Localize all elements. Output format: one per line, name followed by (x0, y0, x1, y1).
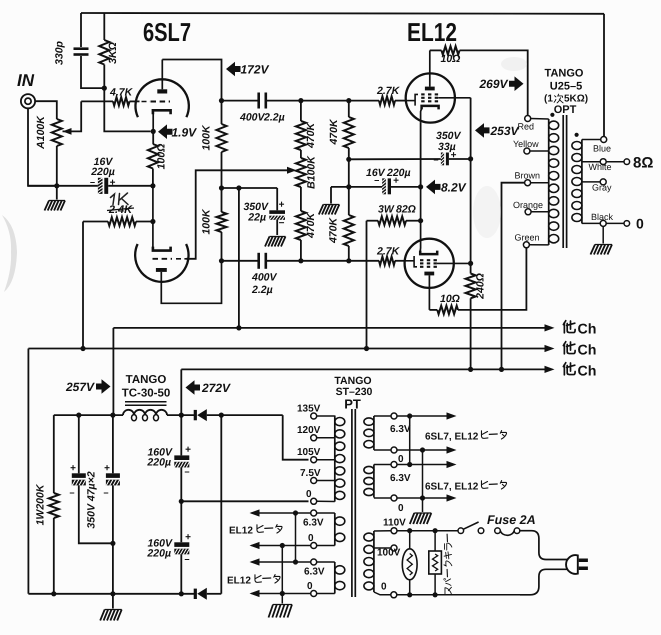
svg-text:TANGO: TANGO (545, 68, 584, 80)
svg-text:Ch: Ch (578, 322, 597, 338)
terminal 100V (374, 545, 397, 551)
wire common rail (28, 348, 545, 350)
label 8.2V (441, 181, 467, 195)
wire B+ riser to 257V rail (238, 188, 240, 328)
resistor 100K lower (217, 212, 227, 261)
label 257V (65, 380, 95, 394)
wire jack ground drop (28, 108, 57, 186)
svg-text:6.3V: 6.3V (390, 473, 411, 484)
junction screen bypass (468, 156, 473, 161)
junction 160V bottom (179, 591, 184, 596)
junction 47u join (110, 541, 115, 546)
ground heater left (269, 605, 293, 618)
junction plate node V1a (219, 98, 224, 103)
transformer OPT secondary dot (575, 133, 579, 137)
svg-text:3W: 3W (378, 204, 395, 216)
svg-text:253V: 253V (490, 124, 520, 138)
wire lower grid line (222, 260, 380, 262)
label White (589, 162, 612, 172)
wire jack to volume pot (35, 101, 57, 119)
label 47u a polarity (69, 463, 76, 498)
wire B+ rail (181, 368, 545, 370)
label 160V b polarity (184, 532, 191, 565)
fuse 2A (495, 528, 520, 535)
pentode V2 screen lead (438, 97, 470, 99)
wire upper grid line (301, 100, 379, 102)
terminal 6.3V R2 (374, 462, 448, 468)
svg-text:2.2µ: 2.2µ (263, 112, 285, 124)
arrow heater R2b (447, 494, 457, 501)
label IN (17, 71, 35, 90)
svg-text:Orange: Orange (513, 200, 543, 210)
switch power (458, 522, 484, 534)
label Black (591, 212, 614, 222)
wire V2 plate to 10 ohm (430, 49, 442, 51)
svg-text:8.2V: 8.2V (441, 181, 467, 195)
label Gray (592, 183, 612, 193)
arrow heater L2b (250, 590, 260, 597)
junction tie R2 end (420, 495, 425, 500)
junction cathode 1.9V node (151, 129, 156, 134)
svg-text:+: + (393, 176, 399, 187)
label 0 ohm tap (636, 216, 644, 232)
svg-text:Ch: Ch (578, 343, 597, 359)
svg-text:105V: 105V (297, 447, 321, 458)
resistor 10 ohm upper (442, 46, 460, 54)
capacitor 350V 47u a (72, 415, 113, 543)
choke TC-30-50 (123, 402, 167, 421)
capacitor 16V 220u input stage (98, 178, 108, 194)
wire heater L1b (252, 545, 311, 547)
svg-text:272V: 272V (201, 381, 231, 395)
capacitor 160V 220u b (174, 542, 189, 594)
svg-text:6SL7, EL12: 6SL7, EL12 (425, 432, 479, 443)
svg-text:33µ: 33µ (438, 141, 456, 153)
label 400V2.2u upper (239, 112, 285, 124)
wire D1 to 105V tap (283, 415, 309, 460)
pentode V2 cathode (421, 106, 439, 123)
wire PSU top mid (167, 414, 194, 416)
junction 100K midpoint (219, 185, 224, 190)
label 16V220u EL12 (366, 167, 411, 179)
label EL12 (407, 17, 457, 47)
label 0 R1 (398, 454, 404, 465)
svg-text:Yellow: Yellow (513, 139, 539, 149)
arrow 172V (226, 62, 241, 77)
junction V3 screen (468, 261, 473, 266)
label 470K divider top (305, 122, 317, 150)
junction tie R2 (420, 447, 425, 452)
svg-text:EL12: EL12 (229, 526, 253, 537)
label 470K divider bottom (305, 212, 317, 240)
terminal Red (525, 116, 549, 122)
pentode V3 plate (424, 272, 434, 310)
arrow B100K wiper (287, 167, 297, 174)
capacitor 350V 47u b (106, 415, 120, 594)
svg-text:100K: 100K (201, 124, 213, 151)
svg-text:240Ω: 240Ω (475, 273, 487, 300)
terminal White (582, 159, 624, 165)
arrow heater R2a (447, 461, 457, 468)
junction cathode 8.2V node (418, 184, 423, 189)
wire common riser (27, 349, 29, 594)
input jack (21, 94, 35, 108)
potentiometer B100K (296, 158, 306, 211)
svg-text:5KΩ): 5KΩ) (564, 94, 588, 105)
wire tie R 63 (409, 416, 411, 465)
label 6.3V R2 (390, 473, 411, 484)
label 22u (247, 212, 266, 224)
resistor 240 ohm screen feed (466, 274, 476, 370)
label PT (344, 397, 361, 412)
wire D1 D2 vertical (220, 415, 222, 594)
label Green (515, 233, 540, 243)
svg-text:A100K: A100K (35, 115, 47, 150)
capacitor 400V 2.2u lower (259, 253, 266, 269)
pentode V2 envelope (406, 73, 455, 122)
terminal 135V (311, 413, 335, 419)
capacitor 330p (74, 13, 105, 88)
pentode V2 grids (421, 94, 438, 101)
label 100 ohm (156, 144, 168, 170)
svg-text:0: 0 (398, 454, 404, 465)
triode V1b grid (153, 258, 187, 260)
wire heater tie 0 (280, 543, 285, 604)
terminal Black (582, 220, 624, 226)
label Blue (593, 144, 611, 154)
label other channel 3 (563, 363, 596, 380)
wire 110V line (397, 530, 458, 532)
svg-text:White: White (589, 162, 612, 172)
junction raw B+ (179, 413, 184, 418)
wire feedback to cathode (104, 88, 150, 131)
junction cap47a (76, 413, 81, 418)
svg-text:−: − (279, 218, 285, 229)
wire V1a plate to coupling node (162, 60, 221, 101)
svg-text:+: + (185, 532, 191, 543)
wire screen bypass cap (349, 158, 441, 160)
wire 10 ohm to Red (460, 50, 528, 115)
label 253V (490, 124, 520, 138)
svg-text:0: 0 (398, 503, 404, 514)
label 350V 22u polarity (279, 200, 285, 230)
terminal 7.5V (311, 478, 335, 484)
arrow 1.9V (158, 124, 173, 139)
terminal Green (523, 242, 548, 248)
triode V1a grid (142, 101, 171, 103)
svg-text:Fuse 2A: Fuse 2A (487, 513, 536, 527)
surge limiter (402, 531, 417, 595)
wire B+ feed to 100K mid (222, 187, 278, 189)
resistor 2.4K cathode V1b (83, 217, 153, 225)
terminal 0 L1 (311, 543, 335, 549)
label 240 ohm (475, 273, 487, 300)
svg-text:Red: Red (518, 122, 535, 132)
label 110V (383, 518, 406, 529)
capacitor 16V 220u EL12 (382, 178, 420, 194)
diode D2 (195, 588, 221, 600)
smudge left (2, 215, 17, 292)
svg-text:1.9V: 1.9V (172, 126, 198, 140)
svg-text:2.7K: 2.7K (376, 246, 401, 258)
svg-text:22µ: 22µ (247, 212, 266, 224)
label 8 ohm (633, 155, 653, 172)
label 135V (297, 404, 321, 415)
transformer PT 110V winding (364, 531, 374, 592)
triode V1a envelope (135, 79, 188, 117)
arrow 8.2V (426, 180, 441, 195)
wire 2.4K to common line (82, 222, 84, 349)
svg-text:6SL7, EL12: 6SL7, EL12 (425, 482, 479, 493)
junction D1 D2 join (219, 413, 224, 418)
label 6SL7 heater 1 (425, 431, 507, 443)
svg-text:400V: 400V (239, 112, 266, 124)
label other channel 2 (563, 342, 596, 359)
svg-text:6.3V: 6.3V (303, 518, 324, 529)
svg-text:+: + (70, 463, 76, 474)
label 33u polarity (433, 150, 456, 165)
label 6SL7 (143, 17, 191, 47)
label Red (518, 122, 535, 132)
wire heater L2a (252, 561, 311, 563)
svg-text:6.3V: 6.3V (304, 567, 325, 578)
terminal 8 ohm (624, 159, 630, 165)
svg-text:−: − (374, 176, 379, 186)
label 120V (297, 425, 321, 436)
label 1W200K (35, 483, 47, 525)
svg-text:3KΩ: 3KΩ (107, 42, 119, 64)
label 16V 220u polarity (90, 178, 116, 189)
triode V1a plate (157, 60, 167, 94)
arrow 272V (186, 380, 201, 395)
wire V3 plate 10 ohm (429, 309, 437, 311)
junction 82 ohm right (418, 218, 423, 223)
svg-text:+: + (104, 463, 110, 474)
label Yellow (513, 139, 539, 149)
wire 10 ohm to Green (458, 248, 526, 310)
svg-text:0: 0 (308, 533, 314, 544)
label 470K grid leak lower (328, 217, 340, 245)
wire 257V riser (112, 328, 114, 415)
wire heater L2b (252, 593, 311, 595)
svg-text:7.5V: 7.5V (300, 468, 321, 479)
smudge center (473, 186, 501, 238)
resistor 3K ohm (99, 13, 109, 88)
label 0 HV (306, 489, 312, 500)
wire PSU bottom rail (28, 593, 194, 595)
svg-text:120V: 120V (297, 425, 321, 436)
label TANGO choke (126, 374, 167, 386)
junction killer bottom (433, 592, 438, 597)
wire feedback rail from OPT Blue tap (81, 12, 604, 15)
svg-text:470K: 470K (305, 122, 317, 150)
label 470K grid leak upper (328, 118, 340, 146)
svg-text:−: − (184, 467, 189, 477)
terminal 6.3V L2 (311, 559, 335, 565)
label 10 ohm upper (441, 53, 461, 65)
svg-text:1W200K: 1W200K (35, 483, 47, 525)
arrow other channel 2 (545, 345, 555, 352)
label 0 L1 (308, 533, 314, 544)
wire tie R 0 (422, 450, 424, 512)
svg-text:220µ: 220µ (146, 548, 171, 560)
label spark killer (444, 534, 452, 594)
label 160V a polarity (184, 445, 191, 478)
wire 257V rail (113, 327, 545, 329)
wire B+ riser (180, 369, 182, 415)
triode V1a cathode (153, 110, 171, 131)
label U25-5 (550, 81, 582, 93)
terminal Gray (582, 179, 606, 185)
terminal Blue (582, 137, 607, 143)
transformer OPT primary (549, 119, 559, 245)
junction B+ on 257V rail (236, 325, 241, 330)
label 1.9V (172, 126, 198, 140)
label 160V a (146, 447, 173, 469)
label 269V (478, 77, 508, 91)
wire doubler midpoint to 0 tap (181, 500, 308, 502)
smudge top (501, 57, 527, 71)
wire V1b grid to B100K wiper (186, 170, 288, 258)
svg-text:Ch: Ch (578, 364, 597, 380)
svg-text:Black: Black (591, 212, 614, 222)
label 272V (201, 381, 231, 395)
label 220u (90, 166, 115, 178)
svg-text:220µ: 220µ (146, 457, 171, 469)
resistor 470K divider bottom (296, 211, 306, 261)
label 2.7K lower (376, 246, 401, 258)
wire cord upper (520, 531, 570, 560)
terminal 6.3V R1 (374, 413, 448, 419)
transformer PT core (352, 409, 355, 597)
label 3W 82 ohm (378, 204, 416, 216)
resistor 470K grid leak upper (344, 101, 354, 215)
transformer PT 6.3V R2 (364, 465, 374, 498)
svg-text:100K: 100K (201, 208, 213, 235)
junction ground tap (346, 184, 351, 189)
pentode V3 grid bracket (405, 256, 417, 267)
transformer OPT primary dot (550, 113, 554, 117)
label TANGO PT (334, 375, 371, 387)
label 7.5V (300, 468, 321, 479)
wire heater L1a (252, 512, 311, 514)
wire ground to cap (331, 186, 382, 188)
svg-text:4.7K: 4.7K (109, 87, 134, 99)
svg-text:Blue: Blue (593, 144, 611, 154)
pentode V3 cathode (420, 240, 437, 254)
capacitor 350V 33u screen (441, 153, 471, 166)
junction B+ branch (236, 185, 241, 190)
svg-text:0: 0 (306, 489, 312, 500)
label 6SL7 heater 2 (425, 481, 507, 493)
junction grid leak bottom (346, 258, 351, 263)
label 3K ohm (107, 42, 119, 64)
label 4.7K (109, 87, 134, 99)
label 105V (297, 447, 321, 458)
triode V1b cathode (153, 247, 171, 251)
svg-text:U25–5: U25–5 (550, 81, 582, 93)
svg-text:−: − (69, 488, 74, 498)
ground input (45, 186, 66, 211)
pentode V2 grid bracket (406, 94, 418, 105)
svg-text:+: + (185, 445, 191, 456)
label 350V screen (436, 130, 462, 142)
resistor 1W 200K bleeder (49, 415, 59, 594)
label EL12 heater 1 (229, 525, 282, 537)
transformer PT 6.3V L1 (335, 513, 345, 546)
label 0 L2 (307, 581, 313, 592)
junction 82 ohm drop (364, 346, 369, 351)
transformer PT HV winding (335, 416, 345, 502)
label 2.7K upper (376, 85, 401, 97)
wire 0 line (397, 594, 522, 596)
pentode V3 envelope (405, 239, 454, 288)
label 172V (241, 63, 270, 77)
svg-text:0: 0 (307, 581, 313, 592)
junction 2.4K drop (80, 346, 85, 351)
arrow 253V (475, 123, 490, 138)
svg-text:6SL7: 6SL7 (143, 17, 191, 47)
junction pot bottom (54, 183, 59, 188)
junction surge bottom (407, 592, 412, 597)
label 2.2u lower (251, 284, 273, 296)
junction tie R1 (407, 413, 412, 418)
terminal Yellow (524, 148, 549, 154)
arrow heater L1b (250, 542, 260, 549)
svg-text:10Ω: 10Ω (440, 293, 460, 305)
label B100K (306, 155, 318, 189)
junction divider bottom (298, 258, 303, 263)
label 0 R2 (398, 503, 404, 514)
label Brown (515, 171, 541, 181)
label OPT impedance (544, 94, 588, 105)
svg-text:0: 0 (636, 216, 644, 232)
terminal 0 R1 (374, 447, 448, 453)
terminal 105V (311, 457, 335, 463)
terminal 110V (374, 528, 397, 534)
svg-text:135V: 135V (297, 404, 321, 415)
junction 2.4K cathode node (150, 219, 155, 224)
wire coupling upper (222, 100, 258, 102)
resistor 470K grid leak lower (344, 215, 354, 261)
junction doubler midpoint (179, 499, 184, 504)
svg-text:EL12: EL12 (227, 576, 251, 587)
label 47u b polarity (103, 463, 110, 498)
resistor 470K divider top (296, 101, 306, 158)
junction cathode bypass node (150, 183, 155, 188)
svg-text:Gray: Gray (592, 183, 612, 193)
svg-text:Green: Green (515, 233, 540, 243)
wire cathode bottom line (28, 185, 153, 187)
terminal Orange (525, 209, 549, 215)
wire cathode to 82 ohm (420, 187, 422, 240)
arrow other channel 3 (545, 366, 555, 373)
svg-text:(1: (1 (544, 94, 553, 105)
label 2.4K struck (107, 204, 134, 216)
spark killer (429, 531, 442, 595)
junction killer top (433, 528, 438, 533)
triode V1b plate (156, 261, 222, 304)
arrow 257V (96, 379, 111, 394)
capacitor 160V 220u a (174, 415, 189, 542)
terminal 0 ohm (624, 221, 630, 227)
label 330p (54, 40, 66, 65)
label 100V (377, 548, 401, 559)
svg-text:TANGO: TANGO (126, 374, 167, 386)
junction grid leak top (346, 98, 351, 103)
resistor 100K upper (217, 101, 227, 212)
junction ground rail psu (110, 591, 115, 596)
